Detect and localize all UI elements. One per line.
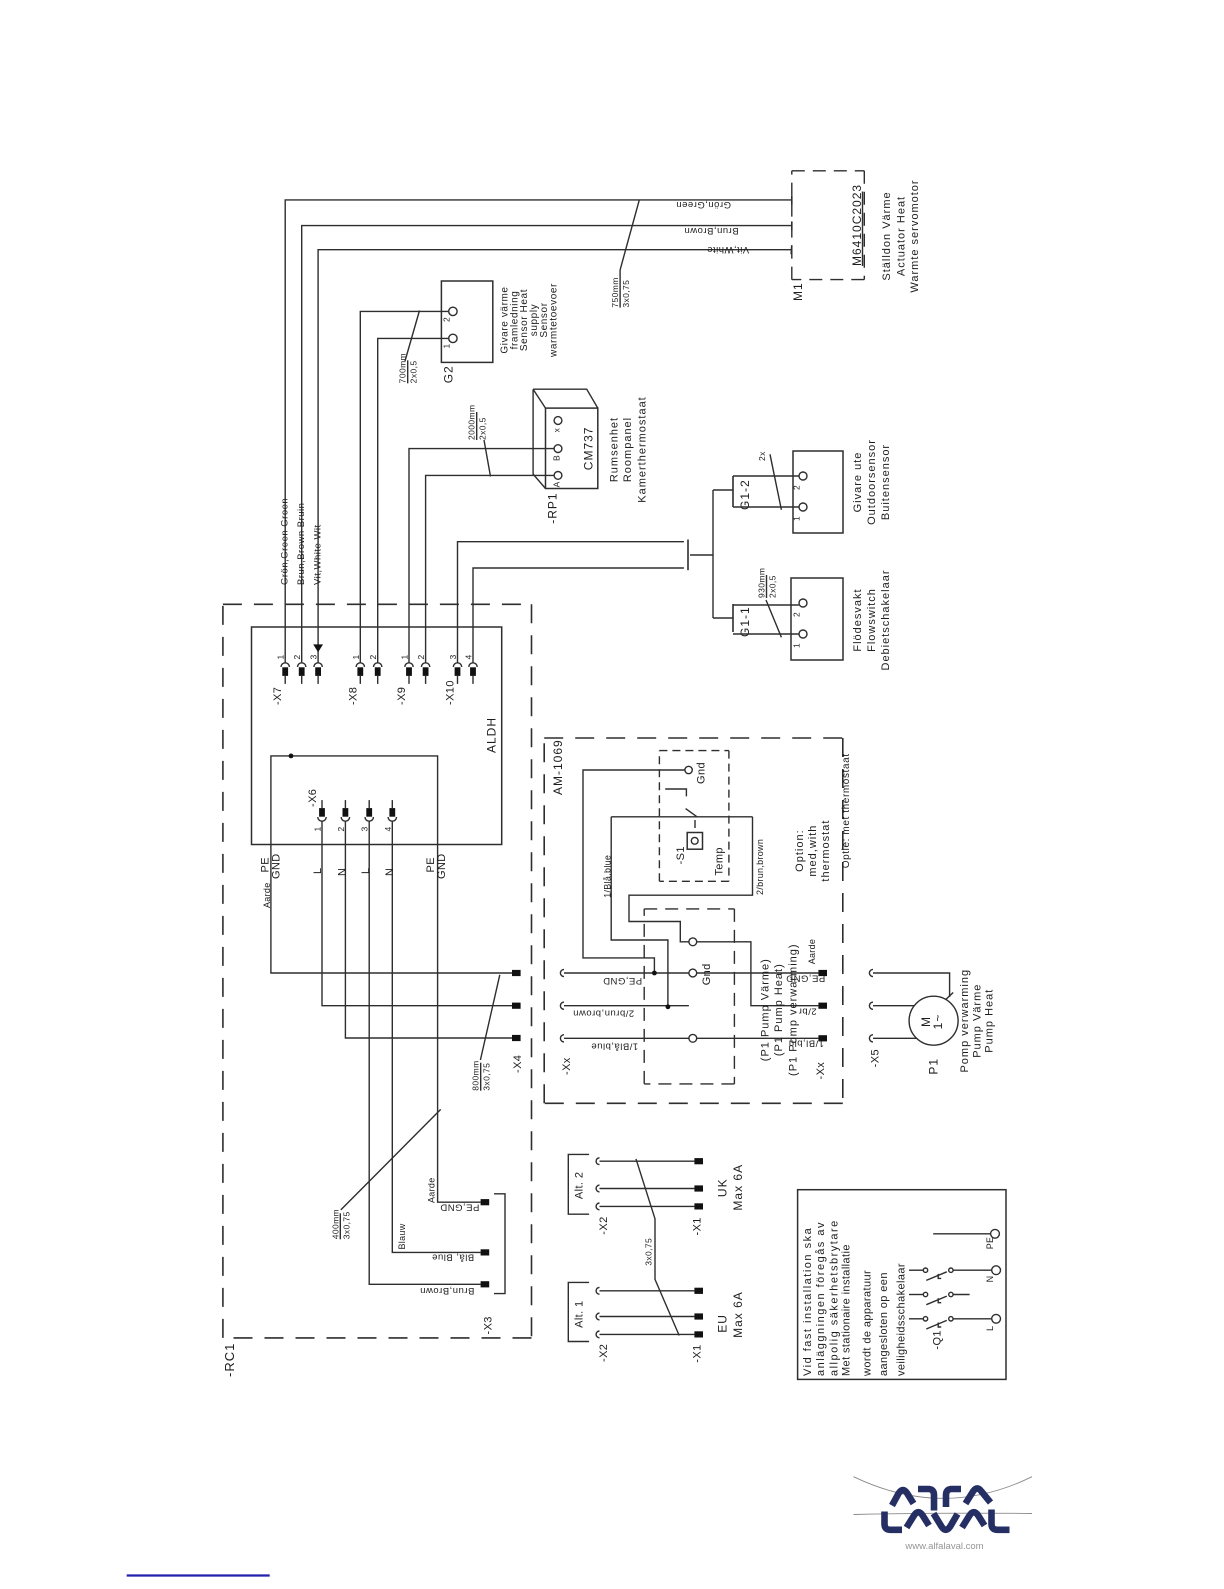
leader line for 2000mm note bbox=[484, 440, 491, 477]
wire G2:2 to -X8:1 bbox=[360, 311, 449, 663]
svg-text:1: 1 bbox=[313, 826, 323, 831]
G1-1 terminal bar bbox=[732, 604, 734, 632]
svg-text:Kamerthermostaat: Kamerthermostaat bbox=[636, 396, 648, 502]
label Gnd (top) bbox=[695, 762, 707, 784]
svg-text:-Q1: -Q1 bbox=[932, 1330, 944, 1350]
pin number 2 of -X6 bbox=[336, 826, 346, 831]
terminal -X4:2 bbox=[512, 1003, 521, 1009]
wire L from -X6:1 down to -X4:2 bbox=[322, 821, 512, 1006]
svg-text:-X4: -X4 bbox=[512, 1055, 524, 1073]
hook connector -Xx PE wire bbox=[560, 969, 564, 976]
terminal -Xx pin 2 bbox=[818, 1003, 827, 1009]
svg-text:B: B bbox=[552, 455, 562, 461]
svg-text:Debietschakelaar: Debietschakelaar bbox=[880, 570, 892, 671]
label -X10 bbox=[445, 680, 457, 705]
svg-text:-X5: -X5 bbox=[870, 1049, 882, 1067]
terminal -X9:2 bbox=[421, 663, 429, 684]
actuator M1 dashed box bbox=[792, 171, 865, 280]
pin number 4 of -X10 bbox=[464, 654, 474, 659]
pin number 3 of -X7 bbox=[309, 654, 319, 659]
svg-text:Ställdon Värme: Ställdon Värme bbox=[881, 191, 893, 280]
label Vit,White (near M1) bbox=[707, 244, 749, 255]
svg-text:Outdoorsensor: Outdoorsensor bbox=[866, 439, 878, 525]
svg-text:3x0,75: 3x0,75 bbox=[341, 1211, 351, 1239]
svg-text:G1-2: G1-2 bbox=[738, 479, 752, 510]
Alt.1 pin 3 bbox=[694, 1331, 703, 1337]
svg-text:-X2: -X2 bbox=[598, 1216, 610, 1234]
svg-text:Optie: met thermostaat: Optie: met thermostaat bbox=[841, 753, 852, 868]
terminal -X4:3 bbox=[512, 1035, 521, 1041]
wire N from -X6:2 down to -X4:3 bbox=[345, 821, 512, 1038]
svg-text:1: 1 bbox=[442, 343, 452, 348]
svg-text:GND: GND bbox=[436, 853, 448, 879]
label M1 bbox=[791, 282, 805, 301]
leader line for 750mm note bbox=[620, 200, 639, 270]
svg-text:750mm: 750mm bbox=[610, 277, 620, 307]
label PE,GND (-X3) bbox=[440, 1202, 479, 1213]
svg-text:Rumsenhet: Rumsenhet bbox=[609, 417, 621, 482]
wire 1/Bla,blue branch to junction bbox=[611, 817, 668, 1007]
M1 terminal tick 2 bbox=[791, 221, 793, 230]
svg-text:allpolig säkerhetsbrytare: allpolig säkerhetsbrytare bbox=[828, 1219, 840, 1376]
label G2 bbox=[442, 365, 456, 383]
G1-2 pin number 2 bbox=[792, 485, 802, 490]
wire from circle A to -Xx pin 2 bbox=[697, 942, 819, 1006]
wire 1/Bla,blue to circle bbox=[564, 1037, 689, 1039]
cable note 700mm 2x0,5 bbox=[398, 353, 419, 383]
arrow on wire W3 bbox=[313, 644, 323, 652]
svg-text:Warmte servomotor: Warmte servomotor bbox=[909, 179, 921, 292]
Alt.2 wire 3 bbox=[600, 1205, 695, 1207]
wire PE/GND (inner box right) down to -X3 PE bbox=[438, 845, 481, 1203]
label -RP1 bbox=[546, 492, 560, 523]
svg-text:aangesloten op een: aangesloten op een bbox=[878, 1272, 890, 1376]
wire W1 Groen/Green (-X7:1 to M1) bbox=[285, 200, 792, 663]
label N (-X6:4) bbox=[384, 868, 396, 876]
svg-text:Vid fast installation ska: Vid fast installation ska bbox=[802, 1227, 814, 1376]
svg-text:-X10: -X10 bbox=[445, 680, 457, 705]
label 1/Bla,blue bbox=[591, 1041, 638, 1052]
G1-2 wire 1 bbox=[733, 475, 799, 477]
svg-text:GND: GND bbox=[270, 853, 282, 879]
wire RP1:B to -X9:1 bbox=[409, 449, 554, 663]
Alfa Laval logo word ALFA bbox=[892, 1488, 991, 1510]
chassis ground slash bbox=[946, 993, 953, 1000]
svg-text:Aarde: Aarde bbox=[427, 1177, 437, 1203]
hook connector -Xx 1/Bla wire bbox=[560, 1035, 564, 1042]
leader line for 800mm note bbox=[480, 975, 499, 1060]
label Aarde (-X3) bbox=[427, 1177, 437, 1203]
cable note 750mm 3x0,75 bbox=[610, 270, 631, 308]
wire from circle B to -Xx pin 1 bbox=[697, 972, 819, 974]
Alt.1 hook 2 bbox=[596, 1313, 599, 1320]
description (P1 Pump Varme) (P1 Pump Heat) (P1 Pomp verwarming) bbox=[759, 943, 799, 1075]
Alt.1 hook 3 bbox=[596, 1331, 599, 1338]
note text (swedish/dutch) bbox=[802, 1219, 908, 1377]
svg-text:AM-1069: AM-1069 bbox=[551, 739, 565, 795]
RP1 pin label B bbox=[552, 455, 562, 461]
terminal -X6:1 bbox=[318, 800, 326, 821]
label Vit,White Wit (at -X7:3) bbox=[313, 524, 324, 585]
svg-text:-X9: -X9 bbox=[396, 687, 408, 705]
hook connector -X5 wire 3 bbox=[869, 1035, 873, 1042]
svg-text:1/Blå,blue: 1/Blå,blue bbox=[591, 1041, 638, 1052]
svg-text:2/brun,brown: 2/brun,brown bbox=[755, 839, 765, 895]
svg-text:warmtetoevoer: warmtetoevoer bbox=[549, 283, 560, 358]
svg-text:Pump Heat: Pump Heat bbox=[984, 989, 996, 1053]
svg-text:A: A bbox=[552, 481, 562, 487]
M1 terminal tick 1 bbox=[791, 196, 793, 205]
wire PE,GND to Gnd circle bbox=[564, 972, 689, 974]
svg-text:3: 3 bbox=[448, 654, 458, 659]
label -X7 bbox=[272, 687, 284, 705]
svg-text:veiligheidsschakelaar: veiligheidsschakelaar bbox=[896, 1263, 908, 1376]
label CM737 bbox=[582, 427, 596, 471]
svg-text:2: 2 bbox=[416, 654, 426, 659]
label UK bbox=[716, 1178, 730, 1197]
G1-2 terminal bar bbox=[732, 476, 734, 507]
terminal -X6:4 bbox=[388, 800, 396, 821]
terminal -X8:2 bbox=[374, 663, 382, 684]
label Aarde (left wire) bbox=[262, 882, 272, 908]
terminal -X7:1 bbox=[281, 663, 289, 684]
connector circle A (2/brun) bbox=[689, 938, 697, 946]
terminal -X7:2 bbox=[298, 663, 306, 684]
G1-2 pin number 1 bbox=[792, 516, 802, 521]
hook connector -X5 PE bbox=[869, 969, 873, 976]
label PE,GND (right) bbox=[786, 973, 825, 984]
svg-text:Flödesvakt: Flödesvakt bbox=[852, 588, 864, 651]
label Brun,Brown Bruin (at -X7:2) bbox=[296, 503, 307, 585]
wire G2:1 to -X8:2 bbox=[378, 338, 449, 663]
svg-text:ALDH: ALDH bbox=[485, 717, 499, 753]
branch vertical to G1-1 / G1-2 bbox=[712, 490, 714, 618]
label -X9 bbox=[396, 687, 408, 705]
connector circle C (1/Bla) bbox=[689, 1034, 697, 1042]
label -Xx (left) bbox=[561, 1057, 573, 1075]
label 2/br bbox=[798, 1005, 816, 1016]
description Rumsenhet / Roompanel / Kamerthermostaat bbox=[609, 396, 649, 502]
Alt.2 pin 3 bbox=[694, 1203, 703, 1209]
flow switch G1-1 box bbox=[791, 578, 843, 660]
label 3x0,75 (mains cable) bbox=[644, 1238, 654, 1266]
terminal -X8:1 bbox=[356, 663, 364, 684]
cable single line to junction bbox=[690, 554, 713, 556]
switch S1 blade bbox=[686, 809, 697, 817]
pin number 1 of -X8 bbox=[351, 654, 361, 659]
svg-text:-Xx: -Xx bbox=[815, 1062, 827, 1080]
svg-text:-X2: -X2 bbox=[598, 1344, 610, 1362]
svg-text:2x: 2x bbox=[757, 451, 767, 461]
label 1/Bl,blu bbox=[788, 1037, 824, 1048]
description Stalldon Varme / Actuator Heat / Warmte servomotor bbox=[881, 179, 921, 292]
pin number 3 of -X6 bbox=[360, 826, 370, 831]
svg-text:Pomp verwarming: Pomp verwarming bbox=[959, 969, 971, 1073]
svg-text:Blå, Blue: Blå, Blue bbox=[432, 1252, 475, 1263]
svg-text:2: 2 bbox=[792, 485, 802, 490]
terminal -X9:1 bbox=[405, 663, 413, 684]
leader line for 700mm note bbox=[405, 311, 420, 362]
svg-text:1: 1 bbox=[792, 516, 802, 521]
svg-text:-RP1: -RP1 bbox=[546, 492, 560, 523]
G1-2 terminal 2 circle bbox=[799, 472, 807, 480]
label www.alfalaval.com bbox=[904, 1541, 983, 1552]
pin number 1 of -X6 bbox=[313, 826, 323, 831]
outdoor sensor G1-2 box bbox=[793, 451, 843, 533]
Alt.1 wire 2 bbox=[600, 1316, 695, 1318]
wire to pump (3) bbox=[873, 1037, 917, 1039]
label Optie: met thermostaat bbox=[841, 753, 852, 868]
leader line for 400mm note bbox=[341, 1109, 441, 1210]
branch wire to G1-2 bbox=[713, 489, 733, 491]
description Givare varme framledning / Sensor Heat supply / Sensor warmtetoevoer bbox=[500, 283, 560, 358]
svg-text:-X1: -X1 bbox=[692, 1217, 704, 1235]
Alt.2 hook 2 bbox=[596, 1185, 599, 1192]
wire PE/GND (inner box left) down to -X4:1 bbox=[271, 845, 512, 974]
label 2/brun,brown (vertical) bbox=[755, 839, 765, 895]
switch -Q1 pole L bbox=[909, 1317, 992, 1329]
Alt.1 pin 2 bbox=[694, 1313, 703, 1319]
wire L from -X6:3 down to -X3 Brun bbox=[369, 821, 480, 1284]
terminal N circle bbox=[992, 1266, 1001, 1275]
label -X6 bbox=[307, 789, 319, 807]
sensor G2 box bbox=[441, 281, 492, 362]
description Pomp verwarming / Pump Varme / Pump Heat bbox=[959, 969, 996, 1073]
Temp sensor circle bbox=[691, 837, 698, 844]
Alt.2 hook 3 bbox=[596, 1203, 599, 1210]
svg-text:wordt de apparatuur: wordt de apparatuur bbox=[861, 1270, 873, 1377]
svg-text:2x0,5: 2x0,5 bbox=[768, 575, 778, 598]
label -X2 (Alt.2) bbox=[598, 1216, 610, 1234]
pin number 4 of -X6 bbox=[383, 826, 393, 831]
label -X1 (Alt.1) bbox=[692, 1344, 704, 1362]
label -RC1 bbox=[222, 1343, 237, 1377]
label GND (left) bbox=[270, 853, 282, 879]
svg-text:UK: UK bbox=[716, 1178, 730, 1197]
thermostat option S1 dashed box bbox=[659, 751, 729, 882]
svg-text:Option:: Option: bbox=[794, 829, 806, 871]
label 2/brun,brown bbox=[573, 1008, 634, 1019]
svg-text:1: 1 bbox=[276, 654, 286, 659]
switch S1 fixed contact bbox=[665, 789, 686, 796]
Alt.1 wire 1 bbox=[600, 1290, 695, 1292]
svg-text:400mm: 400mm bbox=[330, 1209, 340, 1239]
label EU bbox=[716, 1314, 730, 1333]
terminal -X4:1 bbox=[512, 970, 521, 976]
Alt.2 wire 2 bbox=[600, 1188, 695, 1190]
svg-text:-X1: -X1 bbox=[692, 1344, 704, 1362]
Alfa Laval logo swoosh bottom bbox=[854, 1513, 1033, 1514]
svg-text:Vit,White: Vit,White bbox=[707, 244, 749, 255]
cable note 800mm 3x0,75 bbox=[471, 1060, 492, 1090]
G1-1 twisted pair crossing bbox=[766, 600, 781, 637]
ALDH power section inner box bbox=[271, 756, 438, 845]
description Flodesvakt / Flowswitch / Debietschakelaar bbox=[852, 570, 892, 671]
svg-text:EU: EU bbox=[716, 1314, 730, 1333]
svg-text:N: N bbox=[336, 868, 348, 876]
control unit RC1 dashed box bbox=[223, 604, 532, 1338]
svg-text:1/Blå,blue: 1/Blå,blue bbox=[602, 855, 612, 898]
svg-text:2/brun,brown: 2/brun,brown bbox=[573, 1008, 634, 1019]
branch wire to G1-1 bbox=[713, 617, 733, 619]
junction dot on 2/brun wire bbox=[666, 1004, 671, 1009]
switch -Q1 pole N bbox=[909, 1268, 992, 1280]
RP1 pin label A bbox=[552, 481, 562, 487]
wire PE to motor frame bbox=[873, 973, 950, 997]
label PE (Q1) bbox=[985, 1237, 995, 1250]
wire W3 Vit/White (-X7:3 to M1) bbox=[318, 250, 792, 663]
pin number 2 of -X9 bbox=[416, 654, 426, 659]
terminal -X7:3 bbox=[314, 663, 322, 684]
terminal -X3 Bla pin bbox=[481, 1249, 490, 1255]
terminal PE circle bbox=[991, 1229, 1000, 1238]
svg-text:Aarde: Aarde bbox=[262, 882, 272, 908]
svg-text:G1-1: G1-1 bbox=[738, 606, 752, 637]
svg-text:-Xx: -Xx bbox=[561, 1057, 573, 1075]
svg-text:2: 2 bbox=[292, 654, 302, 659]
switch -Q1 pole mid bbox=[909, 1292, 970, 1304]
svg-text:Grön,Green: Grön,Green bbox=[676, 199, 731, 210]
label G1-2 bbox=[738, 479, 752, 510]
M1 terminal tick 3 bbox=[790, 245, 793, 254]
svg-text:-X7: -X7 bbox=[272, 687, 284, 705]
label Bla, Blue bbox=[432, 1252, 475, 1263]
G1-1 wire 2 bbox=[733, 633, 799, 635]
svg-text:1: 1 bbox=[351, 654, 361, 659]
G1-2 terminal 1 circle bbox=[799, 503, 807, 511]
label -X2 (Alt.1) bbox=[598, 1344, 610, 1362]
svg-text:3x0,75: 3x0,75 bbox=[644, 1238, 654, 1266]
svg-text:L: L bbox=[985, 1326, 995, 1331]
wire 2/brun,brown to circle bbox=[564, 1005, 689, 1007]
Alt.1 pin 1 bbox=[694, 1288, 703, 1294]
svg-text:G2: G2 bbox=[442, 365, 456, 383]
label GND (right) bbox=[436, 853, 448, 879]
svg-text:2: 2 bbox=[792, 612, 802, 617]
svg-text:1: 1 bbox=[400, 654, 410, 659]
label Blauw bbox=[397, 1223, 407, 1249]
svg-text:Gnd: Gnd bbox=[695, 762, 707, 784]
hook connector -Xx 2/brun wire bbox=[560, 1002, 564, 1009]
svg-text:Met stationaire installatie: Met stationaire installatie bbox=[840, 1244, 852, 1376]
svg-text:2/br: 2/br bbox=[798, 1005, 816, 1016]
label Brun,Brown (near M1) bbox=[684, 225, 739, 236]
svg-text:Roompanel: Roompanel bbox=[622, 417, 634, 482]
svg-text:CM737: CM737 bbox=[582, 427, 596, 471]
svg-text:Flowswitch: Flowswitch bbox=[866, 588, 878, 652]
svg-text:3: 3 bbox=[360, 826, 370, 831]
svg-text:Givare ute: Givare ute bbox=[852, 452, 864, 513]
Alt.2 group bracket bbox=[568, 1154, 589, 1214]
svg-text:Aarde: Aarde bbox=[807, 939, 817, 965]
svg-text:Vit,White Wit: Vit,White Wit bbox=[313, 524, 324, 585]
ALDH box bbox=[252, 627, 502, 845]
svg-text:med,with: med,with bbox=[807, 825, 819, 877]
label Max 6A (UK) bbox=[731, 1164, 745, 1211]
terminal Gnd (top) bbox=[685, 766, 692, 773]
svg-text:Gnd: Gnd bbox=[701, 963, 713, 985]
label M6410C2023 bbox=[850, 184, 864, 266]
svg-text:930mm: 930mm bbox=[757, 568, 767, 598]
junction dot on PE wire bbox=[652, 971, 657, 976]
svg-text:1~: 1~ bbox=[931, 1014, 945, 1030]
svg-text:Max 6A: Max 6A bbox=[731, 1291, 745, 1338]
label AM-1069 bbox=[551, 739, 565, 795]
label PE (left) bbox=[259, 857, 271, 872]
svg-text:-X3: -X3 bbox=[483, 1316, 495, 1334]
svg-text:PE: PE bbox=[985, 1237, 995, 1250]
svg-text:-S1: -S1 bbox=[675, 846, 687, 864]
label Brun,Brown (-X3) bbox=[420, 1285, 475, 1296]
svg-text:M1: M1 bbox=[791, 282, 805, 301]
cable end ferrule bar bbox=[687, 540, 689, 571]
svg-text:2: 2 bbox=[336, 826, 346, 831]
G1-2 twisted pair crossing bbox=[770, 454, 781, 510]
option module AM-1069 dashed box bbox=[544, 738, 843, 1103]
svg-text:4: 4 bbox=[464, 654, 474, 659]
-X3 group bracket bbox=[494, 1194, 505, 1294]
pin number 3 of -X10 bbox=[448, 654, 458, 659]
switch S1 link to Temp sensor bbox=[694, 820, 696, 833]
terminal L circle bbox=[992, 1314, 1001, 1323]
svg-text:3: 3 bbox=[309, 654, 319, 659]
RP1 terminal A bbox=[554, 472, 562, 480]
label -Xx (right) bbox=[815, 1062, 827, 1080]
room panel RP1 CM737 3D box bbox=[533, 389, 598, 488]
pump connector dashed box bbox=[644, 909, 734, 1084]
svg-text:Alt. 1: Alt. 1 bbox=[574, 1300, 586, 1327]
pump motor P1 circle bbox=[909, 996, 958, 1045]
Alt.2 pin 1 bbox=[694, 1158, 703, 1164]
G2 pin number 2 bbox=[442, 317, 452, 322]
hook connector -X5 wire 2 bbox=[869, 1002, 873, 1009]
svg-text:Alt. 2: Alt. 2 bbox=[574, 1172, 586, 1199]
label Temp bbox=[714, 847, 726, 876]
svg-text:3x0,75: 3x0,75 bbox=[482, 1063, 492, 1091]
svg-text:2000mm: 2000mm bbox=[467, 405, 477, 440]
G1-2 wire 2 bbox=[733, 506, 799, 508]
label L (Q1) bbox=[985, 1326, 995, 1331]
cable note 400mm 3x0,75 bbox=[330, 1209, 351, 1239]
pin number 2 of -X8 bbox=[368, 654, 378, 659]
svg-text:1: 1 bbox=[792, 643, 802, 648]
terminal -X6:3 bbox=[365, 800, 373, 821]
svg-text:PE,GND: PE,GND bbox=[440, 1202, 479, 1213]
RP1 terminal B bbox=[554, 445, 562, 453]
label Alt. 1 bbox=[574, 1300, 586, 1327]
G1-1 terminal 2 circle bbox=[799, 599, 807, 607]
svg-text:Brun,Brown: Brun,Brown bbox=[684, 225, 739, 236]
wire RP1:A to -X9:2 bbox=[426, 475, 554, 663]
svg-text:4: 4 bbox=[383, 826, 393, 831]
Alt.1 wire 3 bbox=[600, 1333, 695, 1335]
svg-text:3x0,75: 3x0,75 bbox=[621, 280, 631, 308]
G1-1 terminal 1 circle bbox=[799, 630, 807, 638]
svg-text:Max 6A: Max 6A bbox=[731, 1164, 745, 1211]
wire from circle C to -Xx pin 3 bbox=[697, 1037, 819, 1039]
connector circle B Gnd bbox=[689, 969, 697, 977]
svg-text:PE,GND: PE,GND bbox=[603, 975, 642, 986]
label Gron,Green Groen (at -X7:1) bbox=[279, 498, 290, 585]
svg-text:www.alfalaval.com: www.alfalaval.com bbox=[904, 1541, 983, 1552]
description Givare ute / Outdoorsensor / Buitensensor bbox=[852, 439, 892, 525]
label Gnd (connector) bbox=[701, 963, 713, 985]
label -X5 bbox=[870, 1049, 882, 1067]
Temp sensor box bbox=[687, 833, 702, 850]
svg-text:Actuator Heat: Actuator Heat bbox=[896, 196, 908, 276]
svg-text:-X6: -X6 bbox=[307, 789, 319, 807]
label M 1~ bbox=[919, 1014, 945, 1030]
